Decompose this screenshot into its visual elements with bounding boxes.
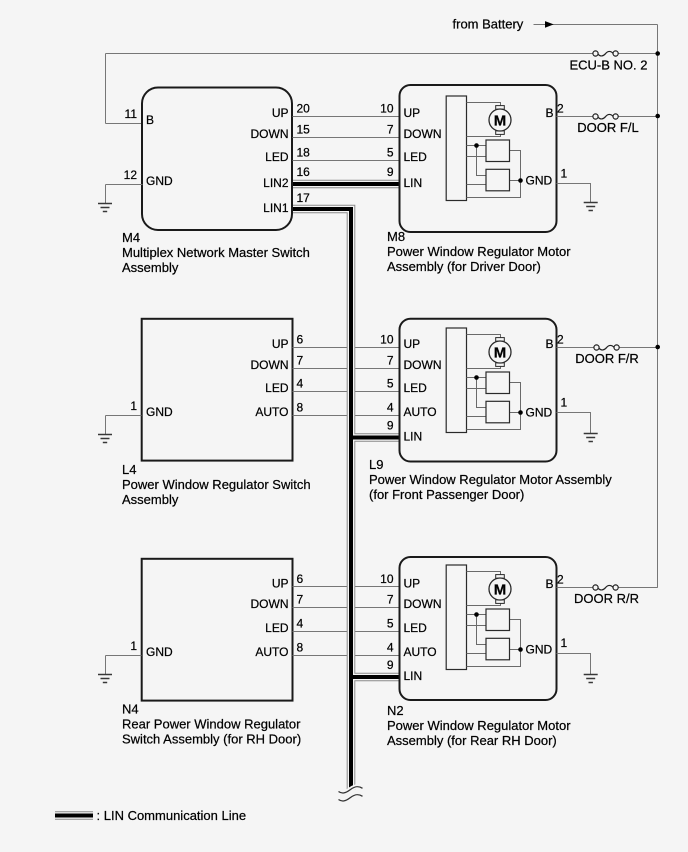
svg-text:UP: UP <box>404 337 421 351</box>
wire N4 UP 6 to N2 UP 10 <box>293 586 400 588</box>
ground L4 <box>98 435 112 443</box>
svg-text:6: 6 <box>297 572 304 586</box>
svg-text:(for Front Passenger Door): (for Front Passenger Door) <box>369 487 524 502</box>
svg-text:2: 2 <box>557 102 564 116</box>
svg-text:8: 8 <box>297 641 304 655</box>
L9 block designation label <box>369 457 612 502</box>
M8 internal GND junction <box>518 178 523 183</box>
svg-text:DOWN: DOWN <box>251 597 289 611</box>
L9 internal GND junction <box>518 410 523 415</box>
svg-text:AUTO: AUTO <box>404 405 437 419</box>
svg-text:5: 5 <box>387 377 394 391</box>
svg-text:UP: UP <box>404 577 421 591</box>
svg-text:GND: GND <box>146 405 173 419</box>
wire L4 GND down <box>105 416 107 435</box>
L9 internal driver/ECU rectangle <box>446 328 466 433</box>
wire M4 LED 18 to M8 LED 5 <box>293 160 400 162</box>
N2 internal driver/ECU rectangle <box>446 565 466 670</box>
junction DOOR F/R to feed line <box>655 345 660 350</box>
L9 motor M symbol <box>489 338 511 367</box>
svg-text:LED: LED <box>404 381 428 395</box>
svg-text:M: M <box>494 581 507 598</box>
svg-text:Switch Assembly (for RH Door): Switch Assembly (for RH Door) <box>122 732 301 747</box>
svg-text:15: 15 <box>297 123 311 137</box>
svg-text:M: M <box>494 112 507 129</box>
ground M8 <box>584 203 598 211</box>
svg-text:1: 1 <box>561 636 568 650</box>
svg-text:M8: M8 <box>387 229 405 244</box>
ground M4 <box>98 204 112 212</box>
svg-text:N2: N2 <box>387 703 404 718</box>
svg-text:LED: LED <box>265 150 289 164</box>
svg-text:DOWN: DOWN <box>404 127 442 141</box>
svg-text:9: 9 <box>387 419 394 433</box>
M4 multiplex network master switch block outline <box>142 88 292 231</box>
svg-text:12: 12 <box>124 168 138 182</box>
svg-text:9: 9 <box>387 165 394 179</box>
svg-text:5: 5 <box>387 617 394 631</box>
wire left feed down to M4 pin B <box>105 54 107 124</box>
ground N4 <box>98 675 112 683</box>
svg-text:Power Window Regulator Motor: Power Window Regulator Motor <box>387 718 571 733</box>
svg-text:2: 2 <box>557 333 564 347</box>
LIN communication line trunk and branches (thick) <box>55 184 399 816</box>
N2 relay square upper <box>486 609 510 631</box>
svg-text:DOWN: DOWN <box>404 597 442 611</box>
svg-text:LIN1: LIN1 <box>263 201 289 215</box>
wire L9 GND pin 1 to ground <box>557 413 591 434</box>
wire N4 GND pin 1 <box>106 655 142 657</box>
svg-text:GND: GND <box>526 406 553 420</box>
svg-text:2: 2 <box>557 573 564 587</box>
svg-text:L9: L9 <box>369 457 383 472</box>
svg-text:16: 16 <box>297 165 311 179</box>
svg-text:10: 10 <box>380 102 394 116</box>
L9 internal junction <box>474 375 479 380</box>
svg-text:18: 18 <box>297 146 311 160</box>
svg-text:UP: UP <box>272 577 289 591</box>
svg-text:LIN: LIN <box>404 176 423 190</box>
fuse DOOR R/R <box>557 585 658 606</box>
svg-text:B: B <box>545 577 553 591</box>
svg-text:1: 1 <box>561 167 568 181</box>
wire N4 DOWN 7 to N2 DOWN 7 <box>293 607 400 609</box>
svg-text:4: 4 <box>387 641 394 655</box>
M8 block designation label <box>387 229 571 274</box>
svg-text:GND: GND <box>526 643 553 657</box>
wire N2 GND pin 1 to ground <box>557 654 591 675</box>
svg-text:M: M <box>494 344 507 361</box>
wire M4 GND down <box>105 185 107 204</box>
svg-text:from Battery: from Battery <box>453 16 524 31</box>
svg-text:DOOR F/L: DOOR F/L <box>577 120 638 135</box>
svg-text:GND: GND <box>146 174 173 188</box>
svg-text:1: 1 <box>561 396 568 410</box>
M4 block designation label <box>122 230 310 275</box>
M8 relay square upper <box>486 140 510 162</box>
M8 internal driver/ECU rectangle <box>446 96 466 201</box>
svg-text:LED: LED <box>404 621 428 635</box>
right vertical battery feed wire <box>657 25 659 588</box>
svg-text:UP: UP <box>272 106 289 120</box>
svg-text:4: 4 <box>387 401 394 415</box>
svg-text:4: 4 <box>297 377 304 391</box>
svg-text:LED: LED <box>265 621 289 635</box>
LIN trunk break squiggle <box>339 787 363 793</box>
wire L4 UP 6 to L9 UP 10 <box>293 347 400 349</box>
svg-text:Assembly: Assembly <box>122 492 179 507</box>
svg-text:Assembly (for Rear RH Door): Assembly (for Rear RH Door) <box>387 733 557 748</box>
L4 power window regulator switch block outline <box>142 319 293 461</box>
svg-text:11: 11 <box>125 107 138 121</box>
svg-text:AUTO: AUTO <box>255 405 288 419</box>
fuse ECU-B NO. 2 <box>569 51 657 73</box>
svg-text:DOOR R/R: DOOR R/R <box>574 591 639 606</box>
svg-text:B: B <box>545 106 553 120</box>
svg-text:5: 5 <box>387 146 394 160</box>
svg-text:UP: UP <box>272 337 289 351</box>
wire M4 DOWN 15 to M8 DOWN 7 <box>293 137 400 139</box>
svg-text:7: 7 <box>387 593 394 607</box>
wire L4 AUTO 8 to L9 AUTO 4 <box>293 415 400 417</box>
ground N2 <box>584 675 598 683</box>
wire top feed to ECU-B fuse <box>106 53 593 55</box>
svg-text:LIN: LIN <box>404 430 423 444</box>
fuse DOOR F/L <box>557 114 658 135</box>
svg-text:DOWN: DOWN <box>251 127 289 141</box>
svg-text:DOOR F/R: DOOR F/R <box>575 351 639 366</box>
wire L4 DOWN 7 to L9 DOWN 7 <box>293 368 400 370</box>
svg-text:Assembly (for Driver Door): Assembly (for Driver Door) <box>387 259 541 274</box>
wire N4 LED 4 to N2 LED 5 <box>293 631 400 633</box>
svg-text:Power Window Regulator Motor: Power Window Regulator Motor <box>387 244 571 259</box>
wire L4 LED 4 to L9 LED 5 <box>293 391 400 393</box>
svg-text:LED: LED <box>404 150 428 164</box>
svg-text:8: 8 <box>297 401 304 415</box>
N2 relay square lower <box>486 638 510 660</box>
M8 relay square lower <box>486 169 510 191</box>
svg-text:DOWN: DOWN <box>404 358 442 372</box>
svg-text:N4: N4 <box>122 702 139 717</box>
svg-text:GND: GND <box>526 174 553 188</box>
wire L4 GND pin 1 <box>106 415 142 417</box>
svg-text:1: 1 <box>130 399 137 413</box>
svg-text:UP: UP <box>404 106 421 120</box>
N2 motor M symbol <box>489 575 511 604</box>
svg-text:6: 6 <box>297 333 304 347</box>
svg-text:M4: M4 <box>122 230 140 245</box>
svg-text:10: 10 <box>380 572 394 586</box>
wire N4 AUTO 8 to N2 AUTO 4 <box>293 655 400 657</box>
svg-text:GND: GND <box>146 645 173 659</box>
svg-text:9: 9 <box>387 658 394 672</box>
svg-text:LIN: LIN <box>404 669 423 683</box>
L4 block designation label <box>122 462 311 507</box>
fuse DOOR F/R <box>557 345 658 366</box>
wire into M4 pin 11 B <box>106 123 143 125</box>
svg-text:AUTO: AUTO <box>255 645 288 659</box>
N2 motor assembly block outline <box>400 557 557 700</box>
junction ECU-B to feed line <box>655 51 660 56</box>
wire from Battery to right feed line <box>534 24 658 26</box>
svg-text:B: B <box>146 113 154 127</box>
L9 relay square lower <box>486 401 510 423</box>
svg-text:Power Window Regulator Switch: Power Window Regulator Switch <box>122 477 311 492</box>
svg-text:LIN2: LIN2 <box>263 176 289 190</box>
svg-text:4: 4 <box>297 617 304 631</box>
L9 internal wires to motor and relays <box>467 335 521 430</box>
wire M4 UP 20 to M8 UP 10 <box>293 116 400 118</box>
M8 internal wires to motor and relays <box>467 103 521 198</box>
svg-text:AUTO: AUTO <box>404 645 437 659</box>
arrowhead on from-Battery wire <box>545 21 554 28</box>
wire N4 GND down <box>105 656 107 675</box>
svg-text:10: 10 <box>380 333 394 347</box>
M8 motor M symbol <box>489 106 511 135</box>
wire M8 GND pin 1 to ground <box>557 184 591 203</box>
svg-text:Rear Power Window Regulator: Rear Power Window Regulator <box>122 717 301 732</box>
svg-text:B: B <box>545 337 553 351</box>
svg-text:7: 7 <box>387 354 394 368</box>
svg-text:1: 1 <box>130 639 137 653</box>
wire M4 GND pin 12 <box>106 184 143 186</box>
svg-text:L4: L4 <box>122 462 136 477</box>
N2 block designation label <box>387 703 571 748</box>
N2 internal GND junction <box>518 647 523 652</box>
svg-text:20: 20 <box>297 102 311 116</box>
svg-text:LED: LED <box>265 381 289 395</box>
N2 internal junction <box>474 612 479 617</box>
svg-text:Assembly: Assembly <box>122 260 179 275</box>
junction DOOR F/L to feed line <box>655 114 660 119</box>
N4 block designation label <box>122 702 301 747</box>
svg-text:7: 7 <box>387 123 394 137</box>
svg-text:7: 7 <box>297 354 304 368</box>
svg-text:7: 7 <box>297 593 304 607</box>
svg-text:17: 17 <box>297 191 311 205</box>
M8 internal junction <box>474 143 479 148</box>
L9 motor assembly block outline <box>400 319 557 462</box>
M8 motor assembly block outline <box>400 85 557 232</box>
ground L9 <box>584 434 598 442</box>
L9 relay square upper <box>486 372 510 394</box>
svg-text:ECU-B NO. 2: ECU-B NO. 2 <box>569 58 647 73</box>
svg-text:: LIN Communication Line: : LIN Communication Line <box>97 808 247 823</box>
svg-text:Multiplex Network Master Switc: Multiplex Network Master Switch <box>122 245 310 260</box>
svg-text:DOWN: DOWN <box>251 358 289 372</box>
N4 rear power window regulator switch block outline <box>142 559 293 701</box>
svg-text:Power Window Regulator Motor A: Power Window Regulator Motor Assembly <box>369 472 612 487</box>
N2 internal wires to motor and relays <box>467 572 521 667</box>
